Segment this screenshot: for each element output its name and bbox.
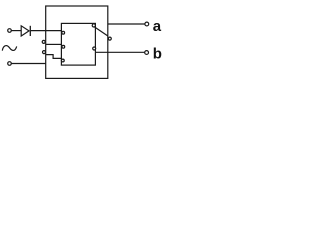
wire diode to switch box bbox=[31, 30, 62, 32]
output terminal a bbox=[145, 22, 149, 26]
feedthrough terminal circle left wall lower bbox=[43, 51, 46, 54]
input terminal bottom bbox=[8, 62, 12, 66]
contact circle C5 right bbox=[93, 47, 96, 50]
wire to terminal a bbox=[108, 23, 145, 25]
input terminal top bbox=[8, 29, 12, 33]
wire to terminal b bbox=[95, 51, 144, 53]
wire bottom input to enclosure bbox=[12, 63, 46, 65]
switch arm bbox=[94, 27, 107, 36]
ac source tilde bbox=[2, 46, 16, 51]
feedthrough terminal circle right wall bbox=[108, 37, 111, 40]
switch box bbox=[61, 23, 95, 65]
svg-text:a: a bbox=[153, 18, 162, 35]
svg-text:b: b bbox=[153, 46, 162, 63]
wire inside enclosure upper bbox=[46, 43, 62, 45]
diode D1 triangle bbox=[21, 26, 29, 36]
contact circle C2 bbox=[62, 45, 65, 48]
enclosure box bbox=[46, 6, 108, 78]
output terminal b bbox=[145, 51, 149, 55]
contact circle C3 bbox=[61, 59, 64, 62]
diode D1 cathode bar bbox=[29, 26, 31, 36]
contact circle C1 bbox=[62, 31, 65, 34]
wire inside enclosure lower jog bbox=[46, 55, 62, 59]
feedthrough terminal circle left wall upper bbox=[42, 40, 45, 43]
contact circle C4 top right bbox=[92, 24, 95, 27]
wire top input to diode bbox=[12, 30, 22, 32]
